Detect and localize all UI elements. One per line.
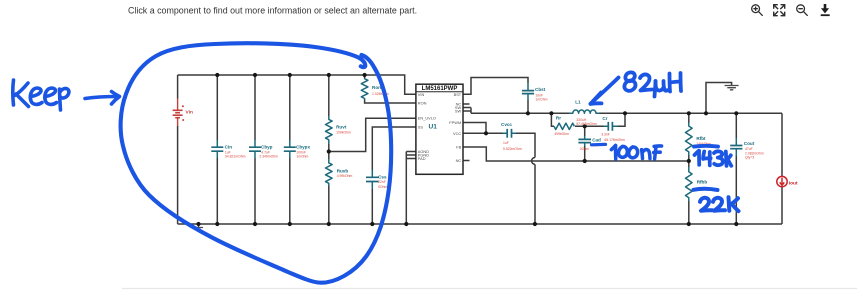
svg-text:RON: RON: [418, 101, 427, 106]
svg-text:Cbst: Cbst: [535, 87, 546, 92]
svg-text:4.99kOhm: 4.99kOhm: [337, 174, 353, 178]
svg-text:VIN: VIN: [418, 92, 425, 97]
svg-text:EN_UVLO: EN_UVLO: [418, 116, 436, 121]
svg-text:Qty=3: Qty=3: [745, 156, 754, 160]
svg-text:2.349mOhm: 2.349mOhm: [259, 155, 278, 159]
svg-text:5.522mOhm: 5.522mOhm: [503, 147, 522, 151]
svg-text:100kOhm: 100kOhm: [336, 131, 351, 135]
svg-text:SS: SS: [418, 125, 424, 130]
svg-text:Ruvt: Ruvt: [336, 124, 347, 129]
svg-text:PAD: PAD: [418, 156, 426, 161]
svg-text:Cin: Cin: [225, 144, 233, 149]
svg-text:VCC: VCC: [453, 131, 461, 136]
svg-text:22nF: 22nF: [378, 180, 386, 184]
svg-text:Rr: Rr: [556, 116, 561, 121]
svg-text:499kOhm: 499kOhm: [554, 132, 569, 136]
svg-text:U1: U1: [429, 124, 438, 131]
svg-text:65.178mOhm: 65.178mOhm: [604, 138, 625, 142]
svg-text:Cr: Cr: [602, 116, 607, 121]
svg-text:Ron: Ron: [372, 85, 381, 90]
svg-text:SW: SW: [455, 109, 462, 114]
svg-text:Ruvb: Ruvb: [337, 169, 349, 174]
svg-text:Cbyp: Cbyp: [261, 144, 273, 149]
svg-text:1uF: 1uF: [503, 141, 509, 145]
svg-text:LM5161PWP: LM5161PWP: [422, 86, 458, 92]
svg-text:1mOhm: 1mOhm: [535, 98, 547, 102]
svg-text:34.821mOhm: 34.821mOhm: [225, 155, 246, 159]
svg-text:FB: FB: [456, 145, 461, 150]
svg-text:Rfbb: Rfbb: [697, 179, 708, 184]
svg-text:FPWM: FPWM: [449, 120, 461, 125]
svg-text:0Ohm: 0Ohm: [378, 185, 387, 189]
svg-text:Css: Css: [378, 175, 387, 180]
svg-text:1mOhm: 1mOhm: [296, 155, 308, 159]
svg-text:Vin: Vin: [186, 110, 193, 116]
svg-text:NC: NC: [456, 158, 462, 163]
svg-text:Iout: Iout: [789, 181, 798, 187]
svg-text:L1: L1: [575, 100, 581, 105]
svg-text:3.3nF: 3.3nF: [601, 132, 610, 136]
svg-text:0Ohm: 0Ohm: [580, 147, 589, 151]
svg-text:Cbypx: Cbypx: [296, 144, 310, 149]
svg-text:Click a component to find out: Click a component to find out more infor…: [128, 6, 417, 16]
svg-text:Cout: Cout: [744, 141, 755, 146]
svg-text:Cad: Cad: [592, 137, 601, 142]
svg-text:BST: BST: [454, 92, 462, 97]
svg-text:57.465mOhm: 57.465mOhm: [576, 122, 597, 126]
svg-text:Rfbt: Rfbt: [696, 136, 706, 141]
svg-text:Cvcc: Cvcc: [501, 122, 512, 127]
